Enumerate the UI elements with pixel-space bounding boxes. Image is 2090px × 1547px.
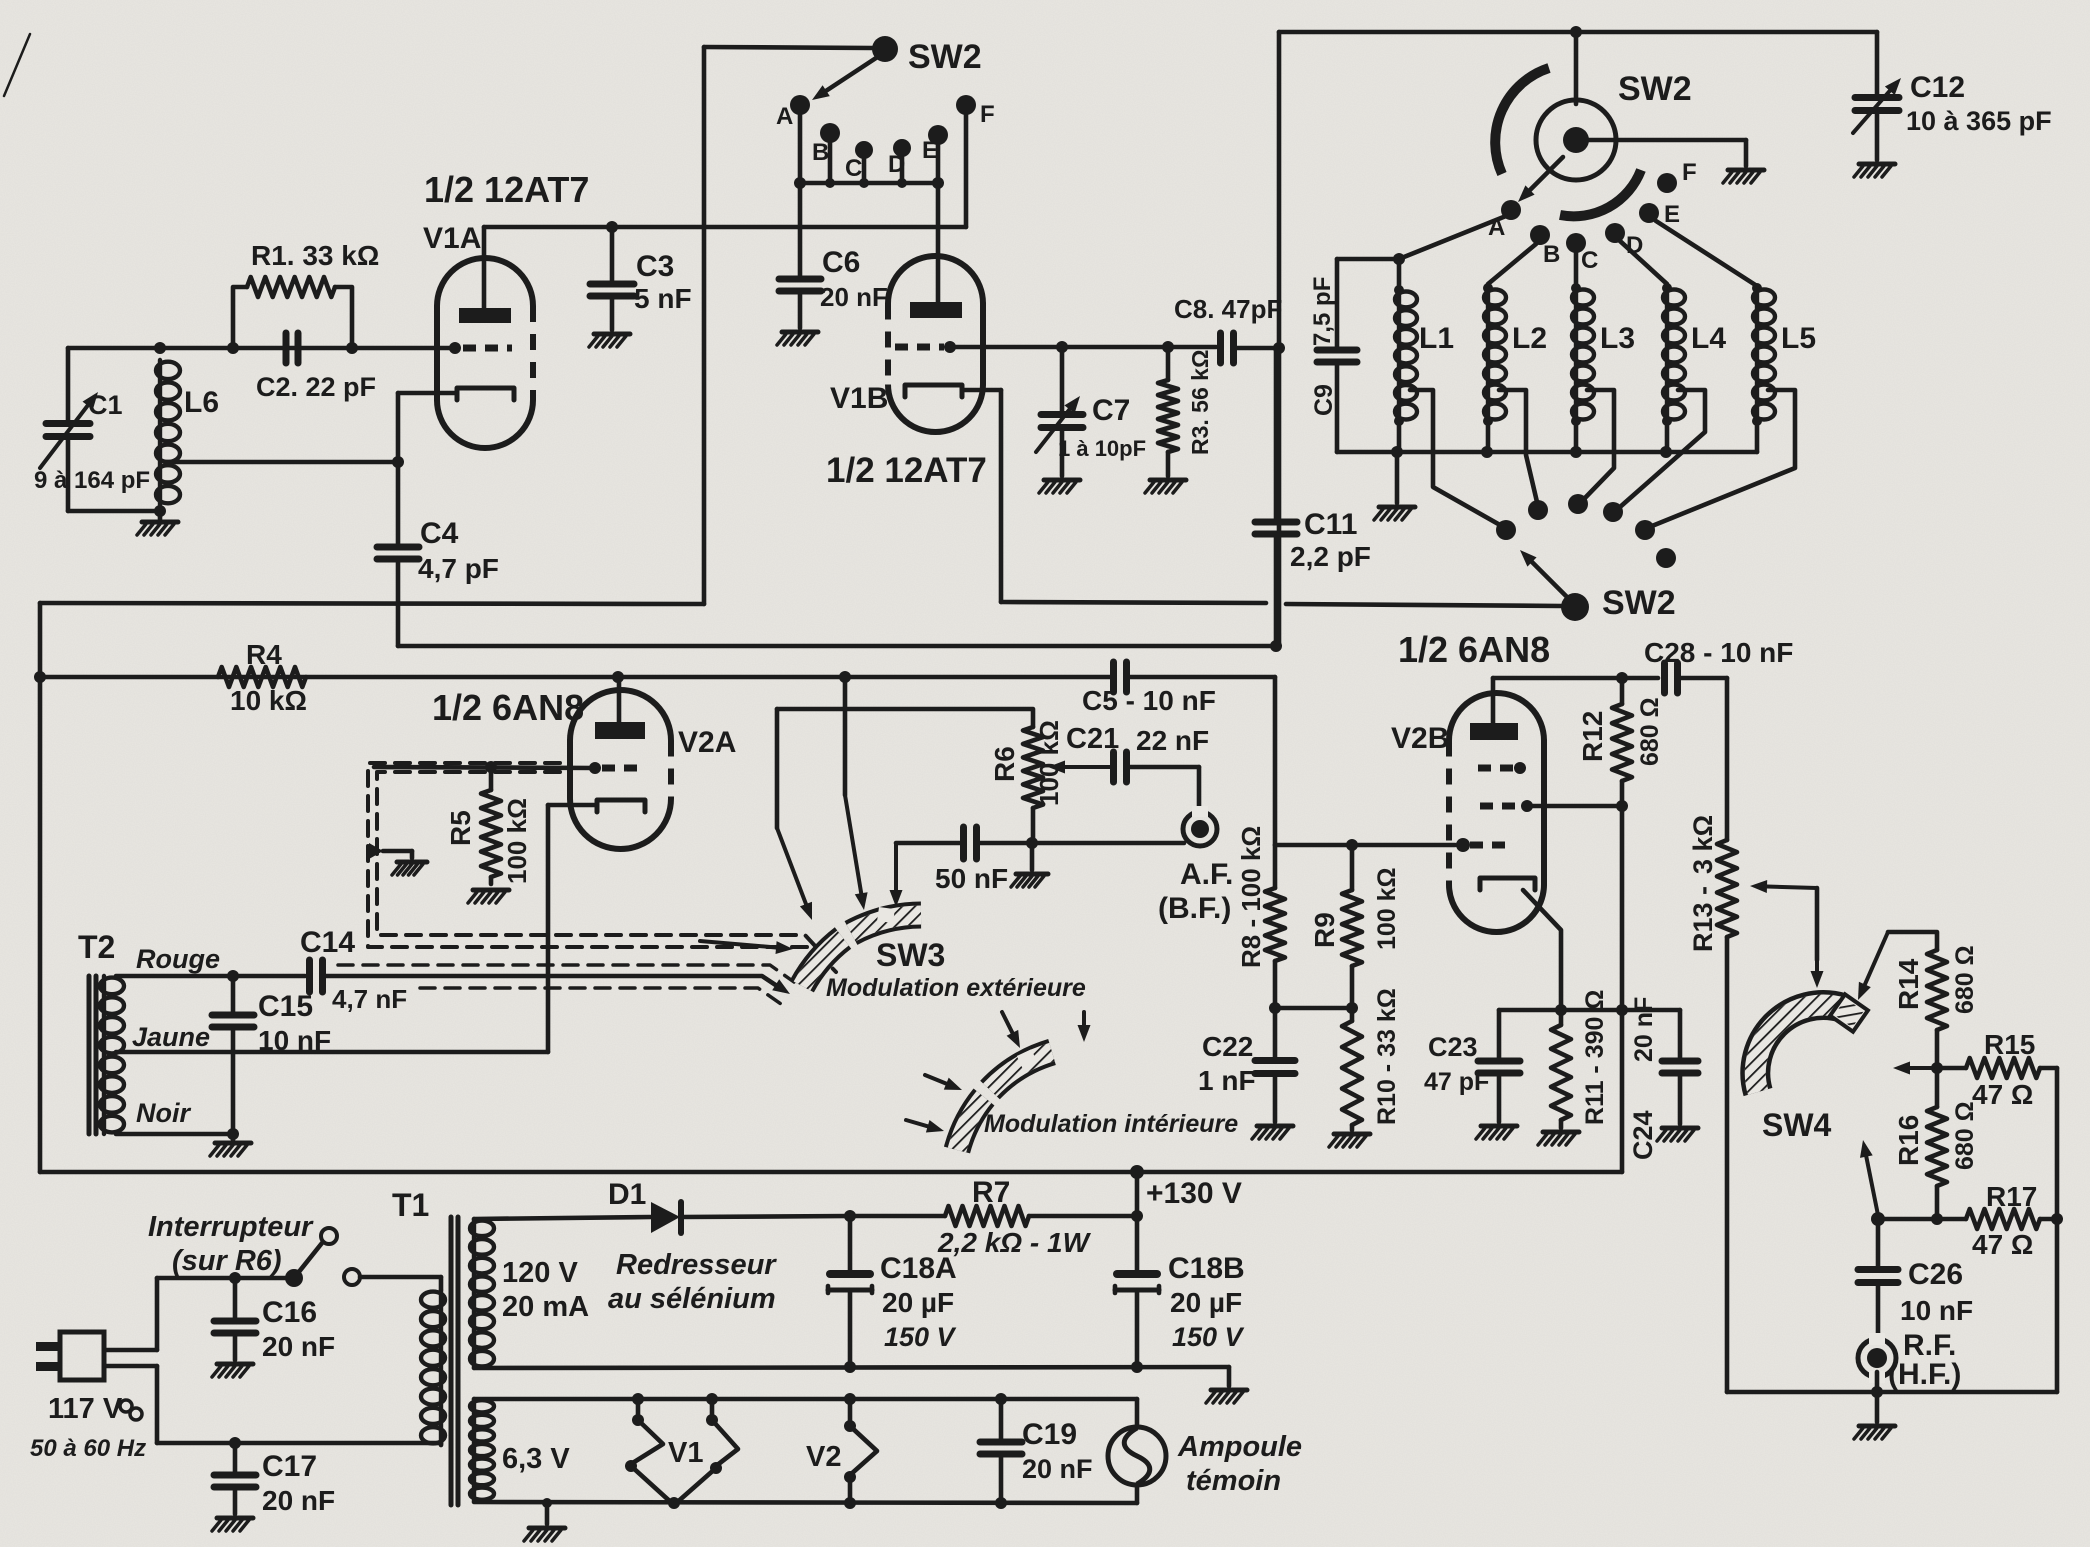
V1B cathode (905, 385, 1001, 397)
svg-text:V2: V2 (806, 1441, 841, 1473)
label SW2 (top) (908, 38, 982, 76)
potentiometer R13 (1717, 840, 1737, 1392)
svg-text:T2: T2 (78, 929, 115, 965)
label R3 (1187, 350, 1213, 455)
label C18A voltage (884, 1322, 957, 1352)
SW3 lower arc segment right (990, 1049, 1052, 1090)
ground under R11 (1538, 1132, 1579, 1145)
shield ground tab (369, 843, 412, 859)
SW3 upper arc segment right (851, 907, 921, 933)
label V1A (423, 222, 481, 255)
svg-text:Interrupteur: Interrupteur (148, 1211, 314, 1243)
ground under L6 (137, 511, 178, 535)
svg-text:C16: C16 (262, 1296, 317, 1329)
ground under C23 (1476, 1126, 1517, 1139)
resistor R16 (1927, 1068, 1947, 1225)
label C4 value (418, 553, 499, 584)
SW2 bus wire (794, 177, 944, 189)
label R17 value (1972, 1229, 2033, 1260)
svg-text:100 kΩ: 100 kΩ (502, 798, 532, 884)
label L3 (1600, 322, 1635, 355)
wire V2B plate rail (1493, 672, 1658, 684)
wire contact A to L1 (1393, 216, 1506, 265)
V2B grid2 (1480, 800, 1533, 812)
label Jaune (132, 1022, 210, 1052)
label SW2 (right) (1618, 70, 1692, 108)
wire cathode junction (1499, 1004, 1622, 1016)
label 50nF (935, 863, 1008, 894)
svg-text:R3. 56 kΩ: R3. 56 kΩ (1187, 350, 1213, 455)
label C6 (822, 246, 860, 279)
SW2 contact stems (800, 113, 938, 183)
ground of shield (392, 862, 427, 875)
SW3 lower arc segment left (957, 1097, 984, 1150)
svg-text:E: E (922, 137, 938, 164)
label Rouge (136, 944, 220, 974)
label B.F. (1158, 892, 1231, 925)
label C5 (1082, 685, 1216, 716)
svg-text:C3: C3 (636, 250, 674, 283)
label C23 (1428, 1032, 1478, 1062)
label 1/2 12AT7 (V1A) (424, 169, 589, 210)
label R16 (1893, 1115, 1924, 1166)
contact B (right SW2) (1530, 225, 1560, 268)
contact F (right SW2) (1657, 159, 1697, 193)
contact E (right SW2) (1639, 201, 1680, 228)
label C22 value (1198, 1065, 1256, 1096)
mains plug (36, 1332, 157, 1380)
V2A plate (595, 677, 645, 739)
resistor R12 (1612, 678, 1632, 812)
capacitor C22 (1255, 1008, 1295, 1122)
label R5 value (502, 798, 532, 884)
label C6 value (820, 282, 888, 312)
rail R12 down (1616, 806, 1628, 1172)
label R6 value (1034, 720, 1064, 806)
label C11 (1304, 508, 1357, 541)
coil box left edge (1277, 32, 1282, 646)
svg-text:D1: D1 (608, 1178, 646, 1211)
svg-text:C18B: C18B (1168, 1252, 1245, 1285)
lower contact B' (1528, 500, 1548, 520)
label C17 (262, 1450, 317, 1483)
label C19 (1022, 1418, 1077, 1451)
svg-text:SW4: SW4 (1762, 1107, 1832, 1143)
svg-text:R8 - 100 kΩ: R8 - 100 kΩ (1236, 826, 1266, 968)
label V2A (678, 726, 736, 759)
coil bank bottom bus (1337, 446, 1757, 458)
label C22 (1202, 1031, 1253, 1062)
inductor L1 (1394, 259, 1417, 452)
svg-text:1 à 10pF: 1 à 10pF (1058, 436, 1146, 461)
svg-text:R14: R14 (1893, 958, 1924, 1010)
svg-text:L5: L5 (1781, 322, 1816, 355)
svg-text:7,5 pF: 7,5 pF (1309, 277, 1336, 346)
label temoin (1186, 1465, 1281, 1497)
label C4 (420, 517, 459, 550)
label R10 (1373, 988, 1401, 1125)
arrow to lower SW3 a (1002, 1012, 1020, 1048)
svg-text:C14: C14 (300, 926, 355, 959)
wire C4 to C11 (y646) (398, 644, 1272, 649)
label H.F. (1888, 1358, 1961, 1391)
label T1 (392, 1187, 429, 1223)
label R17 (1986, 1181, 2037, 1212)
label 117V (48, 1393, 142, 1425)
label L4 (1691, 322, 1726, 355)
wire contact E to L5 (1656, 221, 1757, 286)
wire mains bottom (157, 1437, 441, 1449)
R6 bottom lead (1031, 808, 1036, 843)
label R12 value (1636, 697, 1664, 766)
paper edge artifact (4, 34, 30, 96)
tube V1B envelope (888, 256, 983, 432)
svg-text:Modulation extérieure: Modulation extérieure (826, 974, 1086, 1002)
label A.F. (1180, 858, 1233, 891)
svg-text:20 µF: 20 µF (1170, 1287, 1242, 1318)
label C3 (636, 250, 674, 283)
label C24 (1628, 1110, 1658, 1160)
svg-text:10 nF: 10 nF (258, 1025, 331, 1056)
SW4 rotor arc (1755, 1005, 1843, 1092)
label sur R6 (172, 1245, 282, 1277)
svg-text:5 nF: 5 nF (634, 283, 692, 314)
label R15 value (1972, 1079, 2033, 1110)
label C21 (1066, 723, 1119, 755)
label C15 (258, 990, 313, 1023)
shield box inner (377, 772, 828, 960)
label Modulation interieure (984, 1110, 1238, 1138)
svg-text:1 nF: 1 nF (1198, 1065, 1256, 1096)
wire C8 to coil box (1234, 342, 1285, 354)
svg-text:R16: R16 (1893, 1115, 1924, 1166)
svg-text:L2: L2 (1512, 322, 1547, 355)
svg-text:T1: T1 (392, 1187, 429, 1223)
svg-text:20 nF: 20 nF (262, 1331, 335, 1362)
wire V1A cathode down to C4 (396, 393, 401, 462)
svg-text:150 V: 150 V (884, 1322, 957, 1352)
SW2 wafer arc right (1560, 170, 1641, 216)
heater V1 (625, 1399, 738, 1505)
svg-text:C2. 22 pF: C2. 22 pF (256, 372, 376, 402)
svg-text:1/2 12AT7: 1/2 12AT7 (826, 451, 987, 490)
label C7 (1092, 394, 1130, 427)
label R7 (972, 1176, 1010, 1209)
shield box outer (368, 763, 836, 972)
svg-text:47 pF: 47 pF (1424, 1068, 1489, 1096)
wire R6 top feed (777, 709, 1033, 727)
svg-text:117 V: 117 V (48, 1393, 123, 1425)
inductor L2 (1483, 283, 1506, 452)
heater V2 (844, 1399, 877, 1503)
label L6 (184, 386, 219, 419)
svg-text:Ampoule: Ampoule (1177, 1431, 1302, 1463)
wire F contact down (964, 113, 969, 227)
V1A grid (449, 342, 512, 354)
label C3 value (634, 283, 692, 314)
svg-text:R7: R7 (972, 1176, 1010, 1209)
wire Jaune (116, 1050, 548, 1055)
label C7 value (1058, 436, 1146, 461)
variable capacitor C12 (1853, 32, 1901, 160)
svg-text:1/2 12AT7: 1/2 12AT7 (424, 169, 589, 210)
label V1 heater (668, 1437, 703, 1469)
SW4 pole2 lever (1860, 1140, 1885, 1226)
svg-text:Noir: Noir (136, 1098, 191, 1128)
L5 tap wire (1652, 390, 1795, 526)
svg-text:C18A: C18A (880, 1252, 957, 1285)
ground under R10 (1329, 1134, 1370, 1147)
SW2 arrow to contact A (812, 58, 876, 100)
V1B plate (910, 302, 962, 318)
svg-text:C12: C12 (1910, 71, 1965, 104)
svg-text:Jaune: Jaune (132, 1022, 210, 1052)
svg-text:20 nF: 20 nF (1630, 997, 1658, 1062)
RF output jack (1858, 1333, 1896, 1383)
ground under C22 (1252, 1126, 1293, 1139)
resistor R10 (1342, 1008, 1362, 1130)
svg-text:4,7 nF: 4,7 nF (332, 984, 407, 1014)
capacitor C3 (590, 227, 634, 330)
wire RF jack to bottom (1871, 1372, 1883, 1398)
right rail (2051, 1068, 2063, 1392)
wire Noir (116, 1128, 239, 1140)
ground under C24 (1657, 1128, 1698, 1141)
svg-text:(B.F.): (B.F.) (1158, 892, 1231, 925)
svg-text:au sélénium: au sélénium (608, 1283, 776, 1315)
label R15 (1984, 1029, 2035, 1060)
wire 120V top (474, 1217, 651, 1219)
svg-text:SW2: SW2 (1618, 70, 1692, 108)
wire SW2 feedback (y603) (40, 603, 704, 604)
resistor R4 (218, 667, 306, 687)
label C12 value (1906, 106, 2052, 136)
svg-text:L4: L4 (1691, 322, 1726, 355)
svg-text:SW2: SW2 (1602, 584, 1676, 622)
left border wire (38, 603, 43, 1172)
lower contact F' (1656, 548, 1676, 568)
label R.F. (1903, 1329, 1956, 1362)
label C21 value (1136, 725, 1209, 756)
svg-text:R11 - 390 Ω: R11 - 390 Ω (1581, 990, 1609, 1125)
wire C14 shielded to SW3 (323, 976, 783, 990)
wire R6 bottom to AF jack (1032, 841, 1184, 846)
capacitor C8 (1221, 333, 1234, 363)
svg-text:C8. 47pF: C8. 47pF (1174, 294, 1282, 324)
label L2 (1512, 322, 1547, 355)
AF output jack (1183, 806, 1217, 846)
svg-text:R13 -: R13 - (1688, 886, 1718, 952)
capacitor C26 (1858, 1219, 1898, 1338)
svg-text:C1: C1 (88, 390, 123, 420)
ground under R5 (468, 890, 509, 903)
wire V2A cathode down to Jaune (546, 805, 551, 1052)
ground under C17 (212, 1518, 253, 1531)
transformer T1 core (451, 1217, 458, 1505)
label C9 value (1309, 277, 1336, 346)
wire C5 to V2B grid drop (1127, 677, 1275, 845)
resistor R1 (233, 277, 358, 354)
svg-text:F: F (980, 101, 995, 128)
shield of C14 wire lower (420, 988, 781, 1004)
label R9 (1309, 912, 1340, 948)
C9 frame (1337, 259, 1399, 350)
arrow C14 to SW3 (762, 976, 790, 994)
label C1 value (34, 467, 150, 494)
capacitor C17 (214, 1443, 256, 1514)
label 50a60Hz (30, 1435, 146, 1462)
capacitor C14 (310, 960, 323, 992)
svg-text:F: F (1682, 159, 1697, 186)
svg-text:(sur R6): (sur R6) (172, 1245, 282, 1277)
box bottom / +130V rail (40, 1165, 1622, 1179)
svg-text:R9: R9 (1309, 912, 1340, 948)
svg-text:C5 - 10 nF: C5 - 10 nF (1082, 685, 1216, 716)
lower contact E' (1635, 520, 1655, 540)
svg-text:47 Ω: 47 Ω (1972, 1079, 2033, 1110)
capacitor C18B (1115, 1216, 1159, 1367)
contact A (right SW2) (1488, 200, 1521, 241)
label C14 value (332, 984, 407, 1014)
label R1 (251, 240, 379, 271)
arrow drop to SW3 left (777, 709, 812, 920)
resistor R14 (1927, 950, 1947, 1074)
label au selenium (608, 1283, 776, 1315)
variable capacitor C7 (1036, 347, 1083, 476)
arrow to lower SW3 c (925, 1075, 962, 1090)
svg-text:L6: L6 (184, 386, 219, 419)
svg-text:R15: R15 (1984, 1029, 2035, 1060)
svg-text:(H.F.): (H.F.) (1888, 1358, 1961, 1391)
transformer T2 core (89, 976, 96, 1134)
node R1/C2 left (227, 342, 239, 354)
pilot lamp (1108, 1399, 1166, 1503)
wire V1B cathode down (999, 390, 1004, 602)
ground under C15 (210, 1134, 251, 1156)
SW2 contact A (776, 95, 810, 130)
svg-text:50 nF: 50 nF (935, 863, 1008, 894)
svg-text:C17: C17 (262, 1450, 317, 1483)
svg-text:20 nF: 20 nF (820, 282, 888, 312)
wire mains top (157, 1272, 441, 1284)
SW2 rotor (right wafer) (1536, 100, 1616, 180)
V1B grid (895, 341, 956, 353)
inductor L5 (1752, 283, 1775, 452)
svg-text:C21: C21 (1066, 723, 1119, 755)
V2B cathode (1480, 878, 1561, 1005)
wire grid bias (y845) (1275, 839, 1358, 851)
label R16 value (1951, 1101, 1979, 1170)
wire +130V down (1131, 1172, 1143, 1222)
capacitor C2 (286, 333, 298, 363)
V1A cathode (398, 388, 514, 400)
svg-text:R4: R4 (246, 639, 282, 670)
wire C21 to AF jack (1127, 767, 1199, 812)
wire grid2 to rail (1527, 804, 1622, 809)
label C26 value (1900, 1295, 1973, 1326)
tube V1A envelope (437, 258, 533, 448)
arrow drop to SW3 mid (845, 677, 868, 910)
label 120V (502, 1257, 578, 1289)
svg-text:Modulation intérieure: Modulation intérieure (984, 1110, 1238, 1138)
SW4 box bottom wire (1727, 1390, 2057, 1395)
svg-text:C26: C26 (1908, 1258, 1963, 1291)
svg-text:V1: V1 (668, 1437, 703, 1469)
svg-text:B: B (812, 139, 829, 166)
svg-text:R5: R5 (445, 810, 476, 846)
V2B plate (1470, 678, 1518, 740)
label C18B voltage (1172, 1322, 1245, 1352)
label R7 value (937, 1227, 1092, 1258)
label C15 value (258, 1025, 331, 1056)
label R9 value (1373, 867, 1401, 950)
svg-text:9 à 164 pF: 9 à 164 pF (34, 467, 150, 494)
svg-text:150 V: 150 V (1172, 1322, 1245, 1352)
wire contact D to L4 (1620, 241, 1667, 284)
svg-text:10 à 365 pF: 10 à 365 pF (1906, 106, 2052, 136)
svg-text:SW3: SW3 (876, 937, 945, 973)
L1 tap wire (1410, 390, 1500, 525)
L2 tap wire (1499, 390, 1537, 502)
label V2B (1391, 722, 1449, 755)
contact C (right SW2) (1566, 233, 1598, 274)
wire contact B to L2 (1488, 244, 1536, 284)
svg-text:680 Ω: 680 Ω (1636, 697, 1664, 766)
svg-text:C6: C6 (822, 246, 860, 279)
SW2 contact D (888, 139, 911, 178)
label SW3 (876, 937, 945, 973)
capacitor C11 (1255, 348, 1297, 652)
svg-text:20 nF: 20 nF (1022, 1454, 1093, 1484)
label C2 (256, 372, 376, 402)
variable capacitor C1 (40, 348, 98, 511)
wire to V2B grid3 (1352, 838, 1470, 852)
svg-text:C24: C24 (1628, 1110, 1658, 1160)
ground under R3 (1145, 480, 1186, 493)
label C18A (880, 1252, 957, 1285)
node C1/L6 bottom (68, 505, 166, 517)
label C23 value (1424, 1068, 1489, 1096)
SW2 rotor ball (top) (872, 36, 898, 62)
label R8 (1236, 826, 1266, 968)
capacitor C24 (1622, 1010, 1698, 1124)
svg-text:E: E (1664, 201, 1680, 228)
SW2 contact B (812, 123, 840, 166)
arrow to lower SW3 b (1078, 1012, 1091, 1042)
ground under bus (1374, 452, 1415, 520)
ground at rotor wire (1723, 170, 1764, 183)
label SW4 (1762, 1107, 1832, 1143)
svg-text:10 nF: 10 nF (1900, 1295, 1973, 1326)
wire R8-R10 junction (1275, 1006, 1352, 1011)
label 1/2 6AN8 (V2B) (1398, 629, 1550, 670)
L3 tap wire (1583, 390, 1614, 500)
label R12 (1577, 711, 1608, 762)
wire 120V bottom / ground rail (474, 1361, 1229, 1373)
wire 50nF to R6 bottom (977, 837, 1038, 849)
label C14 (300, 926, 355, 959)
transformer T1 primary (421, 1277, 445, 1445)
svg-text:120 V: 120 V (502, 1257, 578, 1289)
label 6,3V (502, 1443, 570, 1475)
capacitor C4 (377, 462, 419, 646)
inductor L3 (1571, 283, 1594, 452)
ground under C12 (1854, 164, 1895, 177)
ground under R6 (1011, 843, 1048, 887)
svg-text:4,7 pF: 4,7 pF (418, 553, 499, 584)
label C24 value (1630, 997, 1658, 1062)
capacitor C21 (1114, 752, 1127, 782)
